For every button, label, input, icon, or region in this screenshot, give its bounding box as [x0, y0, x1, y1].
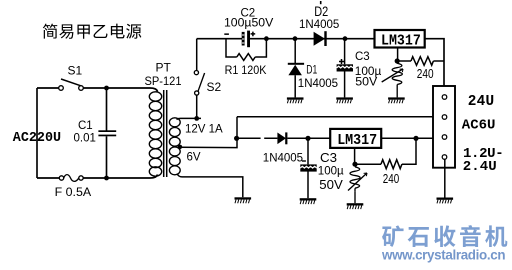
wire: 6V tap — [180, 117, 237, 148]
svg-text:LM317: LM317 — [381, 33, 421, 49]
svg-text:LM317: LM317 — [337, 133, 377, 149]
wire: LM317-2 output — [381, 137, 441, 139]
wire: secondary bottom to ground — [177, 174, 243, 198]
op-amp U1 LM317 regulator box — [375, 30, 425, 49]
fuse F — [59, 175, 83, 182]
wire: to diode — [237, 137, 278, 139]
node: C3 bottom junction — [305, 136, 310, 141]
wire: terminal ground — [444, 160, 446, 198]
ground: potentiometer top — [388, 97, 405, 103]
svg-text:2.4U: 2.4U — [463, 159, 497, 175]
ground: potentiometer bottom — [347, 203, 364, 209]
node: junction dot top-left — [104, 86, 109, 91]
node: 6V branch junction — [234, 136, 239, 141]
ground: terminal block — [437, 198, 454, 204]
wire: bottom rail to primary bottom — [83, 175, 157, 179]
watermark char 矿 — [382, 225, 404, 247]
terminal 1.2-2.4V — [442, 135, 447, 140]
resistor R1 — [226, 39, 266, 61]
svg-text:D2: D2 — [314, 4, 328, 19]
switch S2 — [194, 39, 204, 119]
svg-text:PT: PT — [156, 60, 172, 74]
svg-text:6V: 6V — [187, 151, 201, 163]
capacitor C3 bottom — [300, 138, 316, 198]
node: adj junction 1 — [395, 58, 400, 63]
svg-text:0.01: 0.01 — [74, 132, 96, 144]
svg-text:C3: C3 — [320, 150, 337, 165]
resistor 240 bottom — [355, 138, 416, 168]
wire: top rail to S1 — [37, 87, 59, 89]
wire: LM317-1 output — [425, 39, 444, 95]
wire: top rail — [197, 38, 375, 40]
svg-text:C1: C1 — [78, 120, 93, 132]
svg-text:R1 120K: R1 120K — [225, 63, 267, 77]
svg-text:D1: D1 — [306, 62, 317, 76]
potentiometer bottom — [348, 167, 367, 203]
svg-text:www.crystalradio.cn: www.crystalradio.cn — [381, 248, 506, 263]
terminal spare — [442, 155, 447, 160]
watermark char 石 — [408, 227, 429, 247]
node: 6V tap dot — [178, 145, 183, 150]
svg-text:1N4005: 1N4005 — [298, 78, 338, 90]
svg-text:100µ50V: 100µ50V — [224, 16, 273, 30]
svg-text:S2: S2 — [207, 80, 222, 94]
watermark char 音 — [460, 225, 481, 247]
svg-text:S1: S1 — [68, 64, 83, 78]
svg-text:F 0.5A: F 0.5A — [55, 185, 92, 199]
capacitor C1 — [98, 88, 116, 178]
capacitor C2 plus mark — [251, 32, 256, 37]
diode D3 1N4005 — [277, 132, 330, 144]
wire: AC6V line — [237, 116, 441, 118]
svg-text:50V: 50V — [355, 75, 378, 89]
capacitor C3 plus mark — [339, 59, 344, 64]
terminal AC6V — [442, 115, 447, 120]
title char 甲 — [77, 25, 89, 39]
label D2 tick — [320, 1, 322, 4]
ground: C3 top — [336, 97, 353, 103]
capacitor C3 top — [337, 39, 353, 98]
capacitor C2 — [242, 31, 250, 48]
svg-text:100µ: 100µ — [318, 166, 344, 178]
wire: S1 to transformer primary top — [83, 88, 157, 92]
svg-text:AC220U: AC220U — [13, 131, 61, 146]
resistor 240 top — [397, 57, 444, 66]
svg-text:SP-121: SP-121 — [145, 74, 182, 88]
transformer PT primary winding — [149, 92, 161, 176]
title char 乙 — [94, 25, 108, 38]
op-amp U2 LM317 regulator box — [330, 129, 381, 149]
svg-text:1N4005: 1N4005 — [299, 19, 339, 31]
node: 12V tap dot — [194, 116, 199, 121]
ground: C3 bottom — [300, 198, 317, 204]
wire: LM317-1 adj — [397, 48, 399, 62]
node: adj junction 2 — [352, 162, 357, 167]
title char 源 — [126, 24, 141, 39]
transformer core — [164, 90, 167, 177]
title char 易 — [59, 24, 73, 38]
wire: LM317-2 adj — [354, 148, 356, 164]
switch S1 — [59, 79, 84, 90]
terminal block — [433, 86, 455, 168]
svg-text:AC6U: AC6U — [462, 118, 496, 134]
node: output junction 2 — [413, 136, 418, 141]
svg-text:50V: 50V — [319, 177, 343, 192]
wire: 12V tap — [177, 118, 202, 119]
ground: transformer secondary — [235, 197, 252, 203]
title char 简 — [43, 24, 57, 39]
transformer PT secondary winding — [169, 118, 180, 175]
svg-text:240: 240 — [383, 172, 399, 186]
potentiometer top — [382, 63, 403, 97]
capacitor C2 minus mark — [224, 33, 229, 35]
title char 电 — [111, 24, 125, 39]
svg-text:12V 1A: 12V 1A — [185, 124, 223, 136]
svg-text:240: 240 — [417, 67, 434, 81]
diode D2 — [314, 31, 327, 46]
node: C2/R1 junction — [264, 36, 269, 41]
node: C3 branch junction — [343, 36, 348, 41]
svg-text:24U: 24U — [468, 94, 495, 110]
node: junction dot bottom-left — [104, 176, 109, 181]
watermark char 机 — [485, 225, 507, 247]
wire: bottom rail left — [37, 177, 59, 179]
svg-text:C3: C3 — [355, 51, 370, 63]
terminal 24V — [442, 95, 447, 100]
watermark char 收 — [434, 225, 455, 247]
node: D1 branch junction — [293, 36, 298, 41]
diode D1 — [288, 39, 304, 98]
svg-text:1N4005: 1N4005 — [263, 153, 303, 165]
ground: D1 — [287, 97, 304, 103]
wire: left loop left side — [36, 88, 38, 178]
